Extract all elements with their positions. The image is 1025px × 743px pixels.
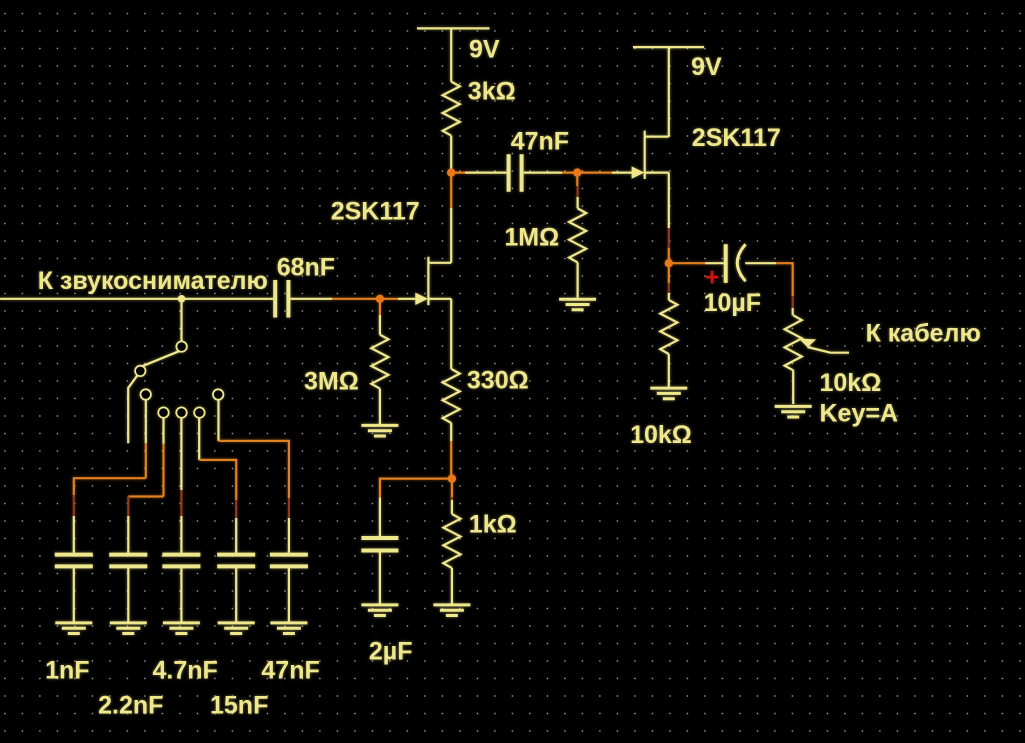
- svg-text:2µF: 2µF: [369, 637, 413, 665]
- svg-text:1kΩ: 1kΩ: [469, 510, 517, 538]
- svg-text:3kΩ: 3kΩ: [468, 78, 516, 106]
- svg-text:1nF: 1nF: [45, 657, 89, 685]
- svg-text:1MΩ: 1MΩ: [504, 223, 559, 251]
- svg-text:10µF: 10µF: [704, 289, 761, 317]
- svg-text:К звукоснимателю: К звукоснимателю: [38, 267, 268, 295]
- svg-text:47nF: 47nF: [261, 657, 319, 685]
- svg-text:47nF: 47nF: [511, 127, 569, 155]
- svg-text:2SK117: 2SK117: [331, 198, 420, 226]
- svg-text:2.2nF: 2.2nF: [98, 692, 163, 720]
- svg-text:Key=A: Key=A: [820, 399, 899, 427]
- svg-text:10kΩ: 10kΩ: [630, 421, 692, 449]
- svg-text:10kΩ: 10kΩ: [820, 369, 882, 397]
- svg-text:4.7nF: 4.7nF: [153, 657, 218, 685]
- svg-text:3MΩ: 3MΩ: [304, 368, 359, 396]
- svg-text:К кабелю: К кабелю: [866, 320, 981, 348]
- svg-text:2SK117: 2SK117: [692, 124, 781, 152]
- svg-text:15nF: 15nF: [210, 692, 268, 720]
- svg-text:9V: 9V: [469, 35, 500, 63]
- svg-text:68nF: 68nF: [277, 253, 335, 281]
- svg-text:330Ω: 330Ω: [467, 367, 529, 395]
- svg-text:9V: 9V: [691, 53, 722, 81]
